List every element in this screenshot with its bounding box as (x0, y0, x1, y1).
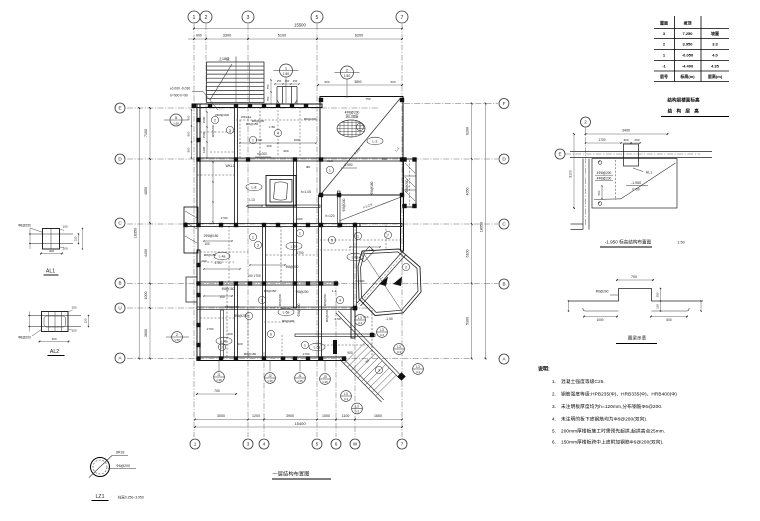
svg-text:-0.050: -0.050 (343, 163, 352, 167)
shaft vertical dim (270, 80, 272, 104)
axis bubble 4 bottom (259, 439, 269, 449)
detail small vert dim (601, 186, 603, 199)
svg-text:3100: 3100 (569, 170, 573, 178)
svg-text:-1.950 标高结构布置图: -1.950 标高结构布置图 (605, 239, 652, 246)
wall x355 vertical (354, 225, 357, 310)
svg-text:120: 120 (84, 318, 88, 323)
svg-text:3.: 3. (552, 404, 556, 409)
AL2 bottom dim (40, 341, 69, 343)
circled number 3 (254, 241, 261, 248)
svg-text:KL3: KL3 (327, 159, 333, 163)
svg-text:1: 1 (193, 15, 196, 21)
svg-text:钢筋强度等级:HPB235(Φ)、HRB335(Φ)、HRB: 钢筋强度等级:HPB235(Φ)、HRB335(Φ)、HRB400(Φ) (561, 391, 677, 398)
svg-text:100: 100 (71, 329, 76, 333)
wall x295 vertical (294, 158, 297, 308)
svg-text:L0: L0 (344, 392, 348, 396)
axis bubble 6 bottom (331, 439, 341, 449)
svg-text:1:50: 1:50 (174, 338, 180, 342)
left room dim column 2 (212, 162, 214, 222)
svg-text:300: 300 (623, 138, 628, 142)
svg-text:900: 900 (283, 149, 288, 153)
svg-text:4.0: 4.0 (712, 53, 718, 58)
svg-text:1: 1 (252, 235, 254, 239)
svg-text:1:25: 1:25 (216, 378, 222, 382)
wall x222 vertical lower (221, 310, 224, 358)
closet bump hatch (405, 163, 415, 173)
svg-text:4: 4 (339, 298, 341, 302)
top overall dim 15500 (194, 28, 402, 30)
svg-text:Φ8@200: Φ8@200 (342, 198, 346, 211)
svg-text:5100: 5100 (278, 34, 286, 38)
svg-text:Φ8@150: Φ8@150 (222, 287, 235, 291)
svg-text:750: 750 (365, 97, 370, 101)
AL1 left dim (29, 229, 31, 250)
svg-text:L-9a: L-9a (352, 255, 359, 259)
wall bottom exterior (197, 357, 345, 361)
svg-text:E: E (118, 106, 121, 111)
circled number 1 (354, 232, 361, 239)
circled number 4 (336, 296, 343, 303)
axis bubble W bottom (350, 439, 360, 449)
detail top dim 3400 (586, 133, 668, 135)
section bottom bar right (652, 310, 688, 312)
top segment dims (188, 38, 402, 40)
svg-text:5: 5 (316, 15, 319, 21)
detail axis bubble 2 (581, 117, 591, 127)
beam dashed y252 (200, 251, 248, 253)
annotation diagonal beam (339, 197, 401, 221)
svg-text:1600: 1600 (374, 414, 382, 418)
index callout L3 (352, 403, 363, 414)
wall courtyard-south horizontal (248, 205, 320, 208)
wall right closet bump (404, 159, 417, 207)
svg-text:5.: 5. (552, 429, 556, 434)
svg-text:7: 7 (387, 233, 389, 237)
courtyard inner wall (270, 180, 292, 203)
index callout L3 (394, 344, 405, 355)
octagon bay inner wall (361, 252, 418, 313)
svg-text:100: 100 (219, 295, 225, 299)
axis bubble C right (499, 219, 509, 229)
svg-text:未注明板厚度均为h=120mm,分布钢筋Φ6@200.: 未注明板厚度均为h=120mm,分布钢筋Φ6@200. (561, 403, 662, 410)
svg-text:2: 2 (205, 15, 208, 21)
extra dashes rooms (239, 120, 241, 158)
svg-text:5300: 5300 (466, 317, 470, 325)
svg-text:1:50: 1:50 (283, 72, 289, 76)
svg-text:1.: 1. (552, 379, 556, 384)
svg-text:1500: 1500 (202, 116, 206, 123)
beam label L-5a (309, 343, 325, 351)
section far left dim (568, 301, 570, 311)
closet bump inner lines (404, 175, 417, 177)
axis bubble 1 top (188, 11, 200, 23)
svg-text:900: 900 (347, 351, 353, 355)
svg-text:L13: L13 (249, 198, 255, 202)
level mark underlines (255, 156, 271, 158)
svg-text:AL1: AL1 (646, 171, 652, 175)
svg-text:Φ8@250: Φ8@250 (18, 224, 31, 228)
svg-text:Φ8@200: Φ8@200 (323, 293, 327, 306)
svg-text:600: 600 (390, 80, 395, 84)
svg-text:900: 900 (187, 115, 191, 120)
svg-text:2.: 2. (552, 392, 556, 397)
grid line B horizontal (127, 283, 498, 285)
svg-text:4.35: 4.35 (711, 64, 720, 69)
octagon diagonal single (362, 251, 403, 313)
svg-text:1: 1 (248, 314, 250, 318)
svg-text:层高(m): 层高(m) (707, 73, 723, 79)
svg-text:L-5a: L-5a (314, 345, 321, 349)
wall C horizontal (184, 224, 360, 227)
detail slope line (621, 163, 676, 199)
svg-text:1:50: 1:50 (173, 121, 179, 125)
roof hatched ellipse opening (337, 120, 365, 137)
svg-text:h=100: h=100 (356, 279, 365, 283)
table caption underline (661, 116, 729, 118)
svg-text:Φ8@180: Φ8@180 (297, 303, 301, 316)
svg-text:一层结构布置图: 一层结构布置图 (272, 470, 309, 478)
stair side column (333, 340, 337, 354)
svg-text:Φ8@180: Φ8@180 (370, 181, 374, 194)
octagon diagonal beam double (357, 252, 402, 303)
index callout L3 (413, 364, 424, 375)
section callout 1 (280, 64, 293, 77)
shaft detail under callout 1 (277, 86, 297, 88)
wall x264 vertical (263, 225, 266, 360)
svg-text:1000: 1000 (596, 318, 603, 322)
svg-text:3.950: 3.950 (682, 42, 693, 47)
svg-text:7: 7 (401, 15, 404, 21)
svg-text:屋面: 屋面 (660, 20, 668, 26)
svg-text:h=120: h=120 (326, 214, 335, 218)
svg-text:3300: 3300 (223, 34, 231, 38)
detail grid 2 vertical (585, 127, 587, 226)
circled number 7 (384, 231, 391, 238)
stair stringer lower (340, 360, 382, 403)
svg-text:上18级: 上18级 (218, 56, 230, 61)
column blobs (183, 98, 416, 361)
beam label L-16 (286, 242, 302, 250)
circled number 3 (226, 126, 233, 133)
axis bubble 7 bottom (397, 439, 407, 449)
stair stringer upper (336, 313, 400, 379)
svg-text:1:25: 1:25 (322, 380, 328, 384)
svg-text:-1.50: -1.50 (333, 317, 340, 321)
svg-text:3-3: 3-3 (358, 321, 362, 325)
circled number 5 (328, 236, 335, 243)
axis bubble A right (499, 354, 509, 364)
circled number 1 (249, 233, 256, 240)
svg-text:Φ6@200: Φ6@200 (116, 464, 130, 468)
svg-text:4400: 4400 (144, 249, 148, 257)
wall x339 vertical (338, 191, 341, 227)
svg-text:L-5a: L-5a (283, 310, 290, 314)
AL1 slab lines (29, 233, 73, 235)
section beam outline (568, 289, 703, 302)
svg-text:100: 100 (237, 342, 242, 346)
grid line C horizontal (127, 223, 498, 225)
detail E wall band (570, 151, 712, 153)
wall x320 vertical (319, 195, 322, 360)
svg-text:1: 1 (357, 234, 359, 238)
svg-text:AL2: AL2 (50, 349, 59, 355)
svg-text:900: 900 (187, 131, 191, 136)
circled number 3 (375, 366, 382, 373)
svg-text:3600: 3600 (144, 329, 148, 337)
left overall dim 18350 (138, 108, 140, 359)
svg-text:W: W (353, 442, 358, 447)
LZ1 column circle (91, 458, 110, 477)
right overall dim 18950 (485, 104, 487, 359)
shaft dim row (275, 83, 299, 85)
svg-text:1100: 1100 (342, 414, 350, 418)
svg-text:结 构 层 高: 结 构 层 高 (668, 108, 701, 115)
svg-text:WKL1: WKL1 (226, 164, 235, 168)
circled number 1 (301, 341, 308, 348)
svg-text:Φ8@200: Φ8@200 (252, 119, 265, 123)
svg-text:Φ8@150: Φ8@150 (204, 253, 217, 257)
svg-text:1: 1 (252, 138, 254, 142)
svg-text:2: 2 (359, 125, 361, 129)
svg-text:600: 600 (324, 80, 329, 84)
svg-text:Φ8@180: Φ8@180 (244, 352, 257, 356)
svg-text:L-2: L-2 (373, 139, 378, 143)
grid line A horizontal (127, 358, 472, 360)
svg-text:-0.050: -0.050 (682, 53, 694, 58)
svg-text:1: 1 (194, 442, 197, 447)
section right dim (660, 289, 662, 312)
svg-text:未注明的板下皮钢筋均为Φ8@200(双向).: 未注明的板下皮钢筋均为Φ8@200(双向). (561, 416, 648, 423)
index callout L3 (377, 327, 388, 338)
svg-text:600: 600 (196, 34, 202, 38)
svg-text:1700: 1700 (598, 138, 605, 142)
svg-text:1500: 1500 (202, 131, 206, 138)
wall D horizontal (197, 158, 401, 161)
svg-text:900: 900 (187, 147, 191, 152)
svg-text:2Φ8@150: 2Φ8@150 (225, 305, 239, 309)
beam dashed x281 (280, 226, 282, 282)
svg-text:3: 3 (378, 368, 380, 372)
svg-text:结构层楼面标高: 结构层楼面标高 (667, 97, 700, 104)
svg-text:说明:: 说明: (538, 366, 550, 373)
beam label L-4b (216, 337, 232, 345)
svg-text:3000: 3000 (217, 414, 225, 418)
svg-text:4Φ8@200: 4Φ8@200 (597, 171, 612, 175)
svg-text:混凝土强度等级C25.: 混凝土强度等级C25. (561, 378, 605, 385)
svg-text:J3: J3 (323, 375, 327, 379)
circled number 1 (326, 166, 333, 173)
svg-text:AL1: AL1 (46, 269, 55, 275)
svg-text:4.: 4. (552, 417, 556, 422)
circled number 4 (274, 129, 281, 136)
svg-text:F: F (503, 101, 506, 106)
svg-text:4050: 4050 (466, 188, 470, 196)
index callout J1 (214, 372, 225, 383)
courtyard outer wall (266, 176, 296, 207)
LZ1 diagonal leader (89, 456, 112, 478)
svg-text:7.250: 7.250 (682, 31, 693, 36)
detail dashed beam (615, 160, 617, 200)
svg-text:700: 700 (214, 389, 220, 393)
svg-text:450: 450 (381, 157, 386, 161)
svg-text:7100: 7100 (144, 129, 148, 137)
section top dim 700 (617, 279, 653, 281)
index callout L3 (355, 315, 366, 326)
wall C horizontal right (360, 224, 402, 227)
wall W stub below UA (351, 308, 355, 338)
grid line 5 vertical (316, 24, 318, 437)
svg-text:4: 4 (263, 442, 266, 447)
svg-text:1: 1 (329, 168, 331, 172)
svg-text:WKL1a: WKL1a (241, 115, 251, 119)
svg-text:1: 1 (261, 298, 263, 302)
detail second dim (586, 142, 641, 144)
svg-text:100: 100 (71, 306, 76, 310)
AL2 beam rect (42, 312, 69, 332)
wall top exterior (192, 104, 322, 108)
axis bubble A left (115, 353, 125, 363)
svg-text:标高(m): 标高(m) (679, 73, 695, 79)
axis bubble D right (499, 154, 509, 164)
beam label L-8 (246, 183, 262, 191)
index callout J1 (295, 373, 306, 384)
circled number 1 (245, 312, 252, 319)
svg-text:L3: L3 (358, 316, 362, 320)
svg-text:洞口加筋: 洞口加筋 (346, 114, 359, 119)
svg-text:3-3: 3-3 (344, 397, 348, 401)
outside dim column left wall (191, 110, 193, 158)
svg-text:坡顶: 坡顶 (684, 20, 692, 26)
svg-text:250: 250 (655, 292, 659, 297)
svg-text:100: 100 (227, 332, 232, 336)
axis bubble 3 top (242, 11, 254, 23)
svg-text:E: E (558, 152, 561, 157)
svg-text:Φ8@200: Φ8@200 (286, 265, 299, 269)
svg-text:18350: 18350 (134, 228, 138, 239)
svg-text:15400: 15400 (294, 421, 306, 426)
svg-text:100 1700: 100 1700 (247, 274, 261, 278)
section bottom bar left (585, 310, 619, 312)
svg-text:250: 250 (277, 79, 282, 83)
circled number 6 (267, 330, 274, 337)
detail column rect (624, 144, 639, 166)
beam label L-2 (367, 137, 383, 145)
wall B horizontal (197, 282, 337, 285)
svg-text:6200: 6200 (466, 127, 470, 135)
section far right dim (700, 301, 702, 311)
svg-text:2: 2 (405, 265, 407, 269)
detail column label AL1 (633, 168, 643, 172)
index callout J2 (265, 373, 276, 384)
stair treads (344, 343, 365, 364)
svg-text:1700: 1700 (214, 261, 221, 265)
octagon bay outer wall (358, 249, 421, 316)
svg-text:1000: 1000 (322, 414, 330, 418)
octagon black wedge 1 (379, 277, 388, 287)
svg-text:1:50: 1:50 (269, 125, 275, 129)
grid line F horizontal (404, 103, 498, 105)
detail axis bubble E (555, 149, 565, 159)
svg-text:U: U (118, 306, 121, 311)
svg-text:Φ8@200: Φ8@200 (18, 336, 31, 340)
svg-text:150mm厚楼板跨中上皮附加钢筋Φ6@200(双向).: 150mm厚楼板跨中上皮附加钢筋Φ6@200(双向). (561, 439, 664, 446)
svg-text:5: 5 (331, 238, 333, 242)
callout stems to bottom wall (218, 361, 220, 372)
svg-text:100: 100 (266, 144, 271, 148)
svg-text:1-1: 1-1 (332, 289, 337, 293)
svg-text:120: 120 (74, 236, 78, 241)
beam dashed y345 right (320, 344, 372, 346)
svg-text:±0.000: ±0.000 (257, 152, 267, 156)
detail room rect (592, 159, 677, 209)
svg-text:7: 7 (401, 442, 404, 447)
AL1 beam rect (43, 229, 60, 250)
room dim row y140 (240, 142, 316, 144)
svg-text:6.: 6. (552, 440, 556, 445)
svg-text:Φ8@200: Φ8@200 (278, 293, 282, 306)
axis bubble B right (499, 279, 509, 289)
callout circle 5 outside left wall (170, 114, 182, 126)
axis bubble 5 bottom (312, 439, 322, 449)
svg-text:Φ8@200: Φ8@200 (405, 179, 409, 192)
svg-text:250: 250 (293, 79, 298, 83)
grid line 6 vertical (335, 280, 337, 437)
AL2 left dim (29, 312, 31, 332)
grid line E horizontal (127, 107, 378, 109)
axis bubble 2 top (200, 11, 212, 23)
circled number 2 (211, 116, 218, 123)
svg-text:2Φ8@200: 2Φ8@200 (215, 113, 229, 117)
svg-text:坡屋: 坡屋 (711, 30, 719, 36)
svg-text:1:50: 1:50 (344, 74, 350, 78)
svg-text:3-3: 3-3 (397, 350, 401, 354)
beam dashed x260 top (259, 107, 261, 158)
svg-text:J1: J1 (217, 373, 221, 377)
axis bubble E left (115, 103, 125, 113)
svg-text:1:25: 1:25 (297, 379, 303, 383)
grid line 4 vertical (263, 352, 265, 437)
level table (654, 28, 729, 30)
svg-text:Φ8@200: Φ8@200 (282, 319, 295, 323)
AL1 right dim (78, 234, 80, 244)
svg-text:100: 100 (201, 259, 206, 263)
beam dashed y175 (197, 174, 234, 176)
grid line 3 vertical (247, 24, 249, 437)
svg-text:1700: 1700 (296, 251, 303, 255)
svg-text:Φ6@200: Φ6@200 (596, 290, 609, 294)
svg-text:250: 250 (634, 138, 639, 142)
beam label L-9a (347, 253, 363, 261)
svg-text:1:50: 1:50 (677, 241, 684, 245)
svg-text:J2: J2 (268, 374, 272, 378)
grid line D horizontal (127, 158, 498, 160)
axis bubble D left (115, 154, 125, 164)
extra dashed texture (236, 119, 320, 121)
svg-text:L3: L3 (355, 405, 359, 409)
beam label L-4a (214, 252, 230, 260)
AL2 right dim (88, 316, 90, 327)
svg-text:3: 3 (229, 128, 231, 132)
svg-text:L3: L3 (416, 365, 420, 369)
wall y335 horizontal (295, 334, 375, 337)
svg-text:3400: 3400 (622, 129, 630, 133)
callout circle 2 outside left wall (172, 332, 183, 343)
index callout J3 (320, 374, 331, 385)
svg-text:1700: 1700 (221, 216, 228, 220)
wall left exterior lower (197, 250, 200, 360)
axis bubble 3 bottom (243, 439, 253, 449)
detail grid E horizontal (565, 153, 700, 155)
